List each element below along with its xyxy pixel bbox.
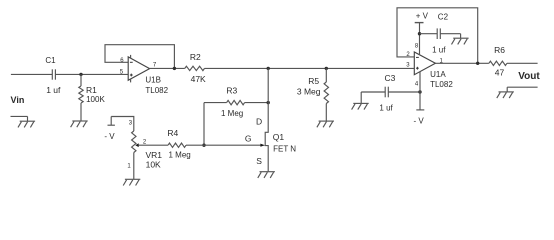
wire R2 to U1A pin3 (205, 67, 415, 69)
ground (C2 right) (452, 34, 469, 45)
ground (output port) (497, 87, 538, 98)
capacitor C3 (361, 87, 420, 98)
svg-text:D: D (256, 117, 262, 127)
resistor R2 (185, 66, 205, 70)
wire pin 4 to -V (419, 72, 421, 110)
capacitor C1 (52, 69, 55, 79)
svg-text:3 Meg: 3 Meg (297, 87, 321, 97)
wire U1A output (435, 62, 489, 64)
svg-text:- V: - V (104, 132, 115, 141)
svg-text:U1A: U1A (430, 70, 446, 79)
svg-text:R4: R4 (167, 128, 178, 138)
node B (drain rail junction) (267, 67, 270, 70)
ground (below R1) (71, 121, 88, 127)
resistor R4 (168, 143, 186, 147)
svg-text:R3: R3 (226, 86, 237, 96)
resistor R3 (204, 100, 268, 104)
svg-text:4: 4 (415, 82, 419, 88)
svg-text:Vout: Vout (518, 71, 540, 82)
op-amp U1A (414, 52, 435, 75)
svg-text:U1B: U1B (145, 75, 161, 84)
node C3 / -V lead (418, 90, 421, 93)
svg-text:C3: C3 (385, 73, 396, 83)
node R3/drain (267, 101, 270, 104)
wire U1B output rail (150, 67, 185, 69)
svg-text:47: 47 (495, 68, 505, 78)
svg-text:1: 1 (127, 164, 131, 170)
svg-text:10K: 10K (146, 160, 161, 170)
wire R3 left leg down to gate line (203, 103, 205, 146)
ground (below VR1) (123, 179, 140, 185)
svg-text:100K: 100K (86, 95, 105, 104)
wire VR1 wiper to R4 (139, 144, 168, 146)
svg-text:1 uf: 1 uf (432, 45, 446, 54)
svg-text:1 Meg: 1 Meg (169, 150, 191, 159)
VR1 wiper arrow (135, 143, 138, 147)
resistor R1 (79, 74, 83, 120)
Q1 gate arrowhead (260, 144, 265, 147)
svg-text:- V: - V (414, 116, 425, 125)
svg-text:3: 3 (406, 62, 410, 68)
svg-text:1 Meg: 1 Meg (221, 109, 243, 118)
wire -V to VR1 (111, 117, 134, 132)
svg-text:Q1: Q1 (273, 132, 285, 142)
svg-text:8: 8 (415, 44, 419, 50)
node U1B out / feedback junction (173, 67, 176, 70)
svg-text:TL082: TL082 (145, 86, 168, 95)
svg-text:1 uf: 1 uf (46, 85, 61, 95)
svg-text:R2: R2 (190, 52, 201, 62)
wire C1 to node A (55, 73, 128, 75)
ground (below Q1 source) (258, 172, 275, 178)
resistor R5 (324, 68, 328, 121)
svg-text:TL082: TL082 (430, 80, 453, 89)
svg-text:47K: 47K (191, 74, 206, 84)
wire +V to pin 8 (419, 23, 421, 55)
node A (C1/R1/pin5 junction) (79, 73, 82, 76)
node R3/R4/gate (202, 144, 205, 147)
wire Vin input rail (11, 73, 52, 75)
svg-text:S: S (256, 156, 262, 166)
wire R4 to gate (186, 144, 262, 146)
U1B plus input mark (130, 74, 133, 77)
node output / feedback junction (476, 62, 479, 65)
svg-text:7: 7 (153, 63, 157, 69)
svg-text:C1: C1 (45, 56, 56, 65)
svg-text:2: 2 (143, 140, 147, 146)
ground (below R5) (317, 121, 334, 127)
capacitor C2 (420, 28, 461, 39)
supply +V (415, 22, 424, 24)
node C (R5 junction) (325, 67, 328, 70)
resistor R6 (489, 61, 507, 65)
wire U1B feedback loop (105, 45, 174, 69)
svg-text:+ V: + V (416, 12, 429, 21)
svg-text:R1: R1 (86, 85, 97, 95)
svg-text:Vin: Vin (11, 95, 25, 105)
svg-text:R5: R5 (308, 76, 319, 86)
wire R6 to Vout (507, 62, 538, 64)
wire U1A feedback loop (397, 8, 478, 64)
svg-text:FET N: FET N (273, 145, 296, 154)
svg-text:3: 3 (129, 120, 133, 126)
svg-text:G: G (245, 134, 252, 144)
potentiometer VR1 (132, 131, 136, 179)
U1B power stubs (130, 55, 132, 83)
U1B minus input mark (130, 61, 133, 63)
svg-text:C2: C2 (438, 12, 449, 21)
ground (C3 left) (352, 92, 369, 110)
ground (input port) (11, 116, 36, 127)
svg-text:6: 6 (120, 58, 124, 64)
U1A plus input mark (416, 67, 419, 70)
U1A minus input mark (416, 56, 419, 58)
supply -V (U1A) (416, 109, 424, 111)
transistor Q1 drain lead (265, 68, 268, 171)
svg-text:1 uf: 1 uf (379, 104, 393, 113)
supply -V (VR1 top) (108, 117, 115, 126)
node +V / C2 (418, 32, 421, 35)
svg-text:R6: R6 (494, 45, 505, 55)
op-amp U1B (128, 57, 149, 80)
